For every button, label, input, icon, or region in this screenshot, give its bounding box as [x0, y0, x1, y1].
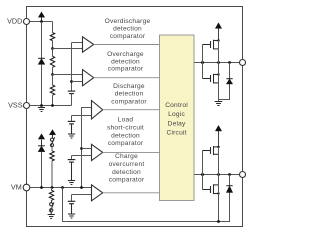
ground CO driver: [215, 102, 223, 106]
transistor M1 PMOS: [203, 40, 219, 50]
comparator U4: [92, 144, 103, 160]
transistor M3 PMOS: [203, 146, 219, 155]
wire comp1 minus input from tap1: [53, 48, 83, 50]
wire M4 to VM rail: [218, 175, 220, 222]
diode D4 body: [226, 186, 232, 193]
svg-text:detection: detection: [111, 132, 140, 139]
comparator U2: [83, 70, 94, 86]
node M4 source: [217, 192, 219, 194]
wire CO diode branch: [219, 63, 230, 100]
ground below C3: [68, 124, 75, 138]
IC boundary: [27, 7, 243, 227]
wire tap1 to R2: [52, 49, 54, 57]
wire comp5 minus input: [72, 194, 92, 196]
label charge overcurrent comparator: [109, 153, 145, 183]
pin VM: [23, 184, 30, 191]
wire diode leg VDD to VSS: [41, 22, 43, 59]
resistor R3: [50, 85, 54, 95]
wire VM return rail to right: [63, 188, 230, 222]
wire comp1 plus input: [72, 42, 83, 44]
comparator U3: [92, 101, 103, 120]
resistor R5: [49, 190, 53, 200]
node tap2: [51, 73, 54, 76]
svg-text:Load: Load: [118, 117, 134, 124]
wire D2 to VM: [41, 152, 43, 188]
node M3 source: [217, 146, 219, 148]
wire comp4 minus input: [72, 155, 92, 157]
resistor R2: [50, 56, 54, 67]
transistor M2 NMOS: [203, 74, 219, 84]
ground below C5: [68, 204, 75, 218]
wire comp4 output: [103, 151, 160, 153]
diode D3 body: [226, 79, 232, 84]
svg-text:VM: VM: [11, 183, 22, 192]
wire comp5 cap stem: [71, 195, 73, 202]
node CO drain junction: [217, 61, 220, 64]
capacitor C4: [68, 160, 76, 163]
ground below VSS rail: [38, 106, 45, 112]
wire below VM to R5: [51, 188, 53, 191]
wire comp2 output: [94, 77, 160, 79]
diode D2: [38, 146, 45, 152]
label overdischarge comparator: [105, 18, 151, 40]
ground below C4: [68, 162, 75, 184]
label overcharge comparator: [107, 51, 144, 73]
capacitor C3: [68, 121, 76, 124]
svg-text:Circuit: Circuit: [166, 130, 186, 137]
svg-text:detection: detection: [112, 169, 141, 176]
node DO gate junction: [201, 173, 204, 176]
svg-text:Logic: Logic: [168, 111, 185, 118]
wire VDD rail: [30, 21, 53, 23]
pin VSS: [24, 103, 30, 109]
wire S1 to R4: [51, 147, 53, 151]
wire DO driver input: [194, 174, 243, 176]
wire VM rail: [30, 187, 92, 189]
wire M3 to output: [218, 147, 220, 175]
pin DO: [240, 172, 246, 178]
node VM rail NMOS junction: [217, 220, 220, 223]
capacitor C5: [68, 201, 76, 203]
svg-text:VDD: VDD: [7, 17, 22, 26]
node VSS-string junction: [51, 104, 54, 107]
switch S1: [50, 137, 54, 146]
node DO drain junction: [217, 173, 220, 176]
node VSS-diode junction: [40, 104, 43, 107]
wire D1 to VSS: [41, 64, 43, 105]
svg-text:detection: detection: [115, 91, 144, 98]
node comp4 plus junction: [80, 147, 83, 150]
control logic box: [160, 35, 195, 201]
node CO diode junction: [228, 61, 231, 64]
wire M1 channel segment: [218, 40, 220, 63]
svg-text:Charge: Charge: [115, 153, 138, 160]
node M1 source: [217, 39, 219, 41]
wire comp1 ref vertical: [71, 43, 73, 92]
node tap1: [51, 47, 54, 50]
switch S2: [50, 200, 54, 212]
node M2 drain: [217, 73, 219, 75]
pin CO: [240, 60, 246, 66]
wire R2 to tap2: [52, 67, 54, 74]
resistor R1: [50, 33, 54, 41]
svg-text:VSS: VSS: [8, 101, 23, 110]
wire comp4 cap stem: [71, 156, 73, 160]
wire comp2 plus input from tap2: [53, 74, 83, 76]
pin VDD: [24, 19, 30, 25]
arrow A3 to VDD (diode leg 2): [38, 134, 44, 146]
node VM-D2 junction: [40, 186, 43, 189]
comparator U1: [83, 37, 94, 52]
svg-text:short-circuit: short-circuit: [107, 125, 144, 132]
svg-text:comparator: comparator: [111, 98, 147, 105]
resistor R4: [50, 151, 54, 161]
svg-text:Overcharge: Overcharge: [107, 51, 144, 58]
wire comp3 cap stem: [71, 116, 73, 122]
ground below S2: [48, 212, 55, 219]
wire tap2 to R3: [52, 75, 54, 86]
node VM-bottomrail junction: [61, 186, 64, 189]
wire resistor-string top corner: [52, 22, 54, 33]
node VM-R4 junction: [51, 186, 54, 189]
wire C2 to VSS corner: [71, 94, 73, 106]
capacitor C2: [68, 91, 76, 94]
wire comp1 output: [94, 44, 160, 46]
transistor M4 NMOS: [203, 184, 219, 194]
wire DO diode branch: [229, 175, 231, 186]
wire comp3 output: [103, 109, 160, 111]
node CO gate junction: [201, 61, 204, 64]
wire R1 to tap1: [52, 41, 54, 49]
wire M2 to ground: [218, 63, 220, 102]
svg-text:detection: detection: [113, 26, 142, 33]
svg-text:detection: detection: [111, 58, 140, 65]
arrow A2 to VDD (switch leg): [49, 130, 55, 138]
svg-text:comparator: comparator: [108, 66, 144, 73]
comparator U5: [92, 185, 103, 201]
wire comp3 minus input: [72, 115, 92, 117]
svg-text:Control: Control: [165, 102, 188, 109]
wire CO gate bus: [202, 45, 204, 79]
node DO diode junction: [228, 173, 231, 176]
wire R3 to VSS: [52, 95, 54, 105]
wire sense bus VM to comp3: [82, 108, 92, 188]
arrow A4 to VDD (CO driver): [215, 23, 221, 40]
arrow A5 to VDD (DO driver): [215, 125, 221, 146]
svg-text:comparator: comparator: [108, 140, 144, 147]
label load short-circuit comparator: [107, 117, 144, 147]
node sense bus at VM: [80, 186, 83, 189]
arrow A1 to VDD: [38, 12, 44, 22]
svg-text:Delay: Delay: [168, 120, 186, 127]
wire DO gate bus: [202, 151, 204, 190]
diode D1: [38, 58, 45, 64]
wire VSS rail: [30, 105, 72, 107]
wire comp2 minus input: [72, 81, 83, 83]
wire comp4 plus input: [82, 148, 92, 150]
svg-text:comparator: comparator: [109, 177, 145, 184]
node comp2 minus junction: [70, 80, 73, 83]
svg-text:comparator: comparator: [110, 33, 146, 40]
wire R4 to VM: [51, 161, 53, 188]
wire comp5 output: [103, 192, 160, 194]
svg-text:Overdischarge: Overdischarge: [105, 18, 151, 25]
wire CO driver input: [194, 62, 243, 64]
svg-text:overcurrent: overcurrent: [109, 161, 145, 168]
svg-text:Discharge: Discharge: [113, 83, 145, 90]
label discharge comparator: [111, 83, 147, 106]
node VDD-arrow junction: [40, 20, 43, 23]
